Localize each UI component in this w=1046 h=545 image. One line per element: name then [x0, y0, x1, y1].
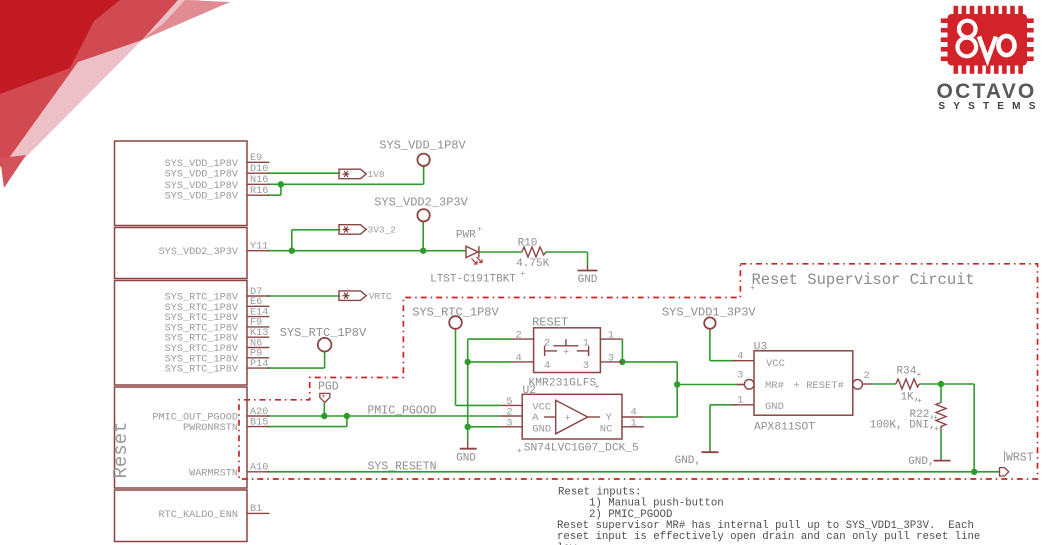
- svg-text:4: 4: [544, 360, 550, 372]
- junction U2 GND/GND bus: [465, 424, 471, 430]
- svg-text:Reset inputs:: Reset inputs:: [558, 486, 641, 498]
- wire GND bus riser at pushbutton: [467, 339, 469, 441]
- svg-text:NC: NC: [600, 424, 613, 436]
- svg-text:A: A: [532, 412, 539, 424]
- power symbol SYS_VDD_1P8V: [417, 154, 429, 166]
- svg-text:D10: D10: [250, 164, 268, 175]
- svg-text:Y11: Y11: [250, 242, 268, 253]
- supervisor U3 APX811SOT: [754, 351, 853, 415]
- svg-text:3: 3: [583, 360, 589, 372]
- wire riser B15 to PMIC_PGOOD: [346, 416, 348, 427]
- wire riser to SYS_VDD_1P8V power symbol: [423, 166, 425, 185]
- resistor R22 (DNI): [936, 403, 946, 431]
- svg-text:2: 2: [864, 370, 870, 382]
- junction Y11/3V3_2 branch: [289, 248, 295, 254]
- svg-text:SYS_VDD_1P8V: SYS_VDD_1P8V: [165, 181, 239, 192]
- svg-text:PWRONRSTN: PWRONRSTN: [183, 423, 238, 434]
- pushbutton S? RESET KMR231GLFS: [534, 328, 601, 373]
- wire to R22 top: [940, 384, 942, 403]
- svg-text:3V3_2: 3V3_2: [368, 225, 397, 236]
- svg-text:SYS_VDD2_3P3V: SYS_VDD2_3P3V: [374, 195, 468, 209]
- svg-text:GND,: GND,: [908, 456, 934, 468]
- svg-text:3: 3: [608, 352, 614, 364]
- pin stubs on left boxes: [247, 162, 269, 513]
- svg-text:2: 2: [544, 337, 550, 349]
- notes text: [557, 486, 980, 545]
- svg-text:GND: GND: [765, 401, 784, 413]
- LED D? PWR LTST-C191TBKT: [466, 246, 479, 257]
- wire R10 to ground corner: [546, 251, 588, 253]
- wire U3 RESET# to R34: [872, 383, 896, 385]
- power symbol SYS_VDD1_3P3V: [704, 317, 715, 328]
- pin E9 stub: [247, 161, 269, 163]
- wire net 1V8 from pin D10: [267, 172, 340, 174]
- wire from U2 output Y: [644, 416, 677, 418]
- svg-text:1: 1: [583, 337, 589, 349]
- svg-text:1) Manual push-button: 1) Manual push-button: [589, 498, 724, 510]
- pin E6 stub: [247, 305, 269, 307]
- svg-text:SYS_VDD_1P8V: SYS_VDD_1P8V: [165, 170, 239, 181]
- svg-text:+ RESET#: + RESET#: [794, 380, 844, 392]
- svg-text:A20: A20: [250, 407, 268, 418]
- pin D7 stub: [247, 295, 269, 297]
- dash-dot supervisor border: [239, 264, 1038, 479]
- svg-text:Reset: Reset: [110, 421, 132, 478]
- wire MR net from pushbutton pin 3: [622, 361, 677, 363]
- resistor R10: [522, 247, 546, 257]
- svg-text:N16: N16: [250, 175, 268, 186]
- pin F9 stub: [247, 326, 269, 328]
- wire pushbutton pin1 to pin3 riser: [621, 339, 623, 362]
- wire to U2 GND pin 3: [468, 426, 501, 428]
- pin K13 stub: [247, 336, 269, 338]
- wire LED cathode to R10: [479, 251, 522, 253]
- logo 8vo glyphs: [958, 21, 1015, 60]
- junction Y11/power symbol: [420, 248, 426, 254]
- resistor R34: [896, 379, 919, 389]
- wire to 3V3_2 connector: [292, 229, 341, 231]
- svg-text:+: +: [934, 425, 939, 434]
- svg-text:+: +: [917, 371, 922, 380]
- wire to U2 VCC pin 5: [456, 404, 501, 406]
- pin N16 stub: [247, 183, 269, 185]
- wire from U3 GND pin 1: [710, 404, 737, 406]
- wire net SYS_VDD_1P8V from pin N16: [267, 183, 424, 185]
- svg-text:PGD: PGD: [318, 380, 339, 393]
- wire net PMIC_PGOOD from pin A20 to U2 input: [267, 415, 500, 417]
- off-page connector WRST: [1000, 468, 1009, 476]
- svg-text:*: *: [321, 395, 326, 404]
- svg-text:GND: GND: [532, 424, 551, 436]
- svg-text:+: +: [595, 383, 600, 392]
- svg-text:U3: U3: [754, 341, 768, 353]
- svg-text:+: +: [520, 270, 525, 279]
- svg-text:WRST: WRST: [1006, 451, 1034, 464]
- wire from PGD connector down to PMIC_PGOOD net: [323, 402, 325, 416]
- svg-text:PWR: PWR: [456, 230, 476, 242]
- svg-text:RESET: RESET: [532, 316, 568, 330]
- off-page connector PGD (pointing down): [320, 393, 330, 402]
- pin A10 stub: [247, 471, 269, 473]
- svg-text:Y: Y: [606, 412, 613, 424]
- pin names inside boxes: [152, 159, 238, 521]
- wire net VRTC from pin D7: [267, 295, 340, 297]
- wire net SYS_VDD2_3P3V from pin Y11 to LED: [267, 250, 466, 252]
- svg-text:LTST-C191TBKT: LTST-C191TBKT: [430, 274, 516, 286]
- svg-text:SYSTEMS: SYSTEMS: [938, 101, 1043, 112]
- wire to U3 VCC pin 4: [710, 360, 737, 362]
- power symbol SYS_VDD2_3P3V: [417, 209, 429, 221]
- pin numbers: [250, 153, 268, 515]
- wire from pin R16: [267, 194, 281, 196]
- svg-text:SYS_VDD2_3P3V: SYS_VDD2_3P3V: [159, 247, 239, 258]
- connector box SYS_VDD_1P8V pins: [115, 141, 248, 226]
- svg-text:A10: A10: [250, 463, 268, 474]
- svg-text:reset input is effectively ope: reset input is effectively open drain an…: [557, 531, 980, 543]
- wire net SYS_RESETN from pin A10 to WRST: [267, 471, 1000, 473]
- wire riser to SYS_VDD2_3P3V power symbol: [422, 221, 424, 251]
- svg-text:PMIC_PGOOD: PMIC_PGOOD: [368, 405, 437, 418]
- wire riser R16 to N16: [280, 184, 282, 195]
- svg-text:+: +: [517, 447, 522, 456]
- svg-text:SYS_VDD_1P8V: SYS_VDD_1P8V: [165, 192, 239, 203]
- junction PGD/PMIC_PGOOD: [321, 413, 327, 419]
- svg-text:+: +: [565, 413, 571, 425]
- svg-text:+: +: [750, 284, 755, 293]
- svg-text:2: 2: [516, 330, 522, 342]
- svg-text:OCTAVO: OCTAVO: [937, 80, 1037, 103]
- pin P9 stub: [247, 357, 269, 359]
- svg-text:+: +: [917, 397, 922, 406]
- svg-text:4: 4: [737, 350, 743, 362]
- svg-text:SYS_VDD_1P8V: SYS_VDD_1P8V: [379, 139, 466, 153]
- junction pushbutton pin1/pin3: [619, 359, 625, 365]
- power symbol SYS_RTC_1P8V (supervisor): [449, 316, 462, 329]
- wire R22 bottom to ground: [940, 431, 942, 459]
- svg-text:B15: B15: [250, 417, 268, 428]
- junction MR net / U2 output: [674, 381, 680, 387]
- svg-text:PMIC_OUT_PGOOD: PMIC_OUT_PGOOD: [152, 413, 238, 424]
- pin A20 stub: [247, 415, 269, 417]
- wire R34 to corner: [919, 383, 974, 385]
- wire SYS_RTC_1P8V power to U2 VCC riser: [455, 329, 457, 406]
- svg-text:R16: R16: [250, 186, 268, 197]
- junction R34/R22: [938, 381, 944, 387]
- connector box Reset pins: [115, 387, 248, 488]
- wire SYS_VDD1_3P3V power riser: [709, 329, 711, 361]
- svg-text:WARMRSTN: WARMRSTN: [189, 468, 238, 479]
- svg-text:SYS_RESETN: SYS_RESETN: [368, 460, 437, 473]
- svg-text:MR#: MR#: [765, 380, 784, 392]
- wire from pin B15: [267, 426, 347, 428]
- connector box SYS_VDD2_3P3V pin: [115, 228, 248, 279]
- connector box RTC_KALDO_ENN pin: [115, 490, 248, 542]
- connector box SYS_RTC_1P8V pins: [115, 281, 248, 386]
- svg-text:GND,: GND,: [675, 455, 701, 467]
- svg-text:3: 3: [737, 370, 743, 382]
- svg-text:SYS_VDD1_3P3V: SYS_VDD1_3P3V: [662, 305, 756, 319]
- wire to pushbutton pin 4: [468, 361, 512, 363]
- wire riser to 3V3_2 branch: [291, 230, 293, 251]
- pin P14 stub: [247, 367, 269, 369]
- junction pushbutton pin4/GND bus: [465, 359, 471, 365]
- svg-text:APX811SOT: APX811SOT: [754, 422, 815, 434]
- power symbol SYS_RTC_1P8V (left): [318, 338, 332, 352]
- wire MR net to U3 MR# bubble: [677, 384, 744, 386]
- ground under U3: [709, 451, 711, 453]
- svg-text:B1: B1: [250, 504, 262, 515]
- svg-text:Reset supervisor MR# has inter: Reset supervisor MR# has internal pull u…: [557, 520, 974, 532]
- off-page connector flag 3V3_2: [339, 225, 366, 235]
- junction R16/N16: [278, 181, 284, 187]
- corner flourish triangles (decorative): [0, 0, 230, 188]
- off-page connector flag VRTC: [339, 291, 366, 301]
- svg-text:1V8: 1V8: [368, 169, 385, 180]
- wire riser to SYS_RTC_1P8V power symbol: [324, 352, 326, 369]
- svg-text:1: 1: [608, 330, 614, 342]
- svg-text:U2: U2: [523, 385, 537, 397]
- svg-text:GND: GND: [578, 274, 598, 286]
- wire MR net riser: [676, 362, 678, 417]
- svg-text:SYS_VDD_1P8V: SYS_VDD_1P8V: [165, 159, 239, 170]
- svg-text:RTC_KALDO_ENN: RTC_KALDO_ENN: [159, 510, 238, 521]
- pin N6 stub: [247, 347, 269, 349]
- junction SYS_RESETN/WRST riser: [971, 469, 977, 475]
- pin D10 stub: [247, 172, 269, 174]
- pin Y11 stub: [247, 250, 269, 252]
- junction B15/PMIC_PGOOD: [344, 413, 350, 419]
- logo chip body: [941, 6, 1034, 74]
- pin B15 stub: [247, 426, 269, 428]
- wire ground drop after R10: [587, 252, 589, 265]
- ground under R22: [934, 460, 951, 462]
- off-page connector flag 1V8: [339, 169, 366, 179]
- svg-text:E9: E9: [250, 153, 262, 164]
- svg-text:+: +: [563, 347, 569, 359]
- svg-text:2) PMIC_PGOOD: 2) PMIC_PGOOD: [589, 509, 672, 521]
- pin B1 stub: [247, 512, 269, 514]
- wire WRST riser down to SYS_RESETN: [973, 384, 975, 472]
- svg-text:R10: R10: [518, 238, 538, 250]
- pin R16 stub: [247, 194, 269, 196]
- svg-text:SYS_RTC_1P8V: SYS_RTC_1P8V: [165, 365, 239, 376]
- svg-text:3: 3: [506, 417, 512, 429]
- pin E14 stub: [247, 316, 269, 318]
- wire net SYS_RTC_1P8V from pin P14: [267, 367, 325, 369]
- svg-text:GND: GND: [456, 453, 476, 465]
- svg-text:VRTC: VRTC: [369, 291, 392, 302]
- svg-text:SYS_RTC_1P8V: SYS_RTC_1P8V: [280, 326, 367, 340]
- svg-text:SN74LVC1G07_DCK_5: SN74LVC1G07_DCK_5: [524, 443, 639, 455]
- svg-text:Reset Supervisor Circuit: Reset Supervisor Circuit: [752, 271, 975, 289]
- svg-text:R34: R34: [897, 366, 917, 378]
- svg-text:P14: P14: [250, 359, 268, 370]
- svg-text:+: +: [477, 226, 482, 235]
- Octavo Systems logo: [937, 6, 1044, 112]
- svg-text:1: 1: [631, 417, 637, 429]
- ground under R10: [587, 265, 589, 271]
- svg-text:1: 1: [737, 394, 743, 406]
- svg-text:KMR231GLFS: KMR231GLFS: [529, 378, 597, 390]
- svg-text:VCC: VCC: [766, 358, 785, 370]
- svg-text:4.75K: 4.75K: [516, 258, 549, 270]
- buffer U2 SN74LVC1G07_DCK_5: [522, 394, 622, 439]
- ground under pushbutton: [467, 442, 469, 449]
- svg-text:100K, DNI,: 100K, DNI,: [870, 420, 936, 432]
- wire to pushbutton pin 2: [468, 338, 512, 340]
- svg-text:SYS_RTC_1P8V: SYS_RTC_1P8V: [412, 305, 499, 319]
- wire U3 GND drop: [709, 405, 711, 451]
- svg-text:4: 4: [516, 352, 522, 364]
